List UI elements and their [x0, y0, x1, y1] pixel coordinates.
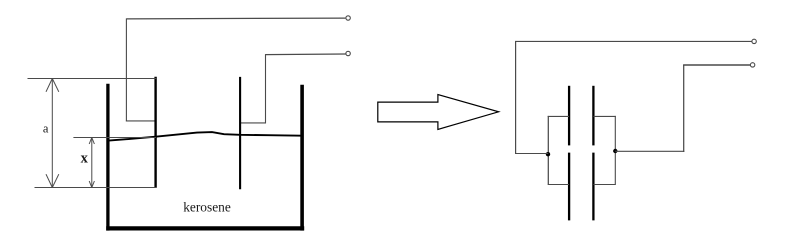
wire loop left vertical	[547, 116, 549, 185]
wire right-circuit top horizontal to terminal	[515, 40, 752, 42]
wire W2 vertical drop	[265, 54, 267, 123]
wire right-circuit right branch vertical	[683, 65, 685, 152]
dimension reference line x-level	[73, 137, 156, 139]
wire W2 horizontal to right plate	[241, 122, 267, 124]
wire W1 horizontal to left plate	[126, 120, 156, 122]
capacitor C1 top-left plate segment	[568, 86, 570, 146]
terminal T1 (left circuit, top)	[346, 16, 350, 20]
junction dot left node	[546, 152, 550, 156]
wire right-circuit left branch horizontal mid	[515, 153, 548, 155]
wire loop top-right horizontal	[593, 115, 615, 117]
wire W2 top horizontal to terminal	[265, 53, 345, 56]
svg-text:kerosene: kerosene	[183, 200, 231, 215]
kerosene surface line	[107, 132, 302, 141]
tank right wall	[300, 85, 304, 231]
capacitor C2 bottom-left plate segment	[568, 153, 570, 221]
dimension reference line top (level a)	[28, 78, 157, 80]
wire W1 vertical drop	[125, 18, 127, 121]
tank bottom	[106, 226, 304, 230]
dimension arrow x (double-headed)	[89, 138, 94, 188]
dimension arrow a (double-headed)	[46, 79, 59, 188]
svg-text:x: x	[81, 150, 89, 166]
dimension reference line bottom	[35, 187, 157, 189]
tank left wall	[106, 84, 109, 231]
capacitor C2 bottom-right plate segment	[592, 153, 594, 221]
wire loop bottom-right horizontal	[593, 184, 615, 186]
capacitor plate P1 (left plate in tank)	[154, 77, 156, 188]
wire loop bottom-left horizontal	[548, 184, 569, 186]
wire right-circuit left branch vertical	[515, 41, 517, 154]
wire right-circuit second horizontal to terminal	[683, 64, 750, 66]
terminal T2 (left circuit, bottom)	[346, 51, 350, 55]
capacitor C1 top-right plate segment	[592, 86, 594, 146]
junction dot right node	[613, 149, 617, 153]
wire loop top-left horizontal	[548, 115, 569, 117]
terminal T4 (right circuit, bottom)	[750, 63, 754, 67]
svg-text:a: a	[43, 122, 49, 136]
wire loop right vertical	[614, 116, 616, 185]
block arrow (equivalence)	[378, 95, 499, 130]
capacitor plate P2 (right plate in tank)	[239, 77, 241, 189]
terminal T3 (right circuit, top)	[752, 39, 756, 43]
wire W1 top horizontal to terminal	[127, 17, 346, 20]
wire right-circuit right branch horizontal mid	[615, 150, 684, 152]
